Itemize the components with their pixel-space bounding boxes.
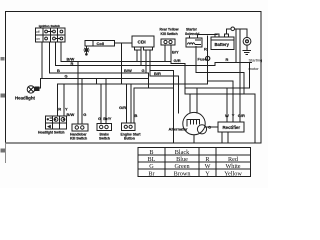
scan mark left 2 <box>1 94 6 98</box>
svg-text:G: G <box>98 116 101 121</box>
fuse circle <box>206 56 210 60</box>
svg-text:Starting: Starting <box>249 58 263 63</box>
wire kill drop 1 <box>164 45 166 62</box>
wire battery plus to connector <box>226 29 231 34</box>
svg-text:G: G <box>142 68 145 73</box>
svg-text:G/R: G/R <box>174 58 181 63</box>
wire v123 engine <box>126 84 128 123</box>
svg-text:B/W: B/W <box>67 112 75 117</box>
wire motor to ground <box>246 45 248 50</box>
wire CDI drop 4 <box>149 50 151 76</box>
starting motor <box>243 37 251 45</box>
svg-text:Button: Button <box>124 137 135 141</box>
wire v77 kill <box>77 62 79 125</box>
rectifier box <box>218 122 244 132</box>
wire y94 right <box>185 94 255 143</box>
svg-text:Red: Red <box>228 156 239 163</box>
wire rect in2 <box>232 81 234 122</box>
legend table <box>138 148 251 177</box>
wire solenoid link to battery <box>198 34 217 38</box>
wire ignition drop 4 <box>60 42 62 62</box>
wire B/R seg <box>150 75 179 77</box>
wire alt to rectifier <box>205 126 218 128</box>
wire v59 headlight switch <box>63 84 65 116</box>
alternator <box>183 112 207 134</box>
wire v178 to alternator <box>178 76 180 113</box>
svg-text:motor: motor <box>249 66 260 71</box>
handlebar kill switch box <box>72 124 88 131</box>
svg-text:Br/Y: Br/Y <box>103 116 112 121</box>
svg-text:B/W: B/W <box>124 68 132 73</box>
CDI connector tabs <box>135 47 142 50</box>
wire v236 <box>235 29 237 63</box>
svg-text:Green: Green <box>174 163 189 170</box>
outer frame <box>6 12 262 144</box>
svg-text:BL: BL <box>148 156 156 163</box>
spark plug <box>84 48 89 56</box>
svg-text:R: R <box>71 61 74 66</box>
headlight switch box <box>46 116 67 129</box>
svg-text:G/R: G/R <box>238 113 245 118</box>
svg-text:R: R <box>204 47 207 52</box>
wire fuse drop v208 <box>207 36 209 84</box>
wire v185 <box>184 64 186 95</box>
wire CDI left drop <box>120 43 122 84</box>
battery box <box>211 34 234 50</box>
wire loop right <box>173 71 175 144</box>
rear kill switch box <box>161 39 175 45</box>
wire R right seg <box>215 63 252 66</box>
wire bus R <box>56 65 216 67</box>
svg-text:G: G <box>65 74 68 79</box>
scan mark left 1 <box>1 57 5 61</box>
wire alt in1 <box>189 94 191 113</box>
svg-text:Fuse: Fuse <box>198 57 208 62</box>
wire v81 kill <box>81 79 83 125</box>
svg-text:Alternator: Alternator <box>169 127 189 132</box>
svg-text:Yellow: Yellow <box>224 170 242 177</box>
wire rect out2 <box>227 132 229 143</box>
wire coil to plug <box>86 46 88 48</box>
svg-text:Black: Black <box>175 149 190 156</box>
wire ignition drop 1 <box>41 42 43 79</box>
wire ignition drop 2 <box>49 42 51 73</box>
wire loop top y88 <box>134 88 174 123</box>
wire rect out1 <box>221 132 223 143</box>
wire v52 headlight switch <box>57 84 59 116</box>
svg-text:White: White <box>225 163 240 170</box>
ignition switch box <box>36 28 66 42</box>
wire CDI drop 2 <box>140 50 142 66</box>
wire connector to motor <box>235 29 248 38</box>
wire v105 brake <box>105 79 107 124</box>
engine start button box <box>122 123 136 130</box>
frame left lower extension <box>5 143 7 163</box>
wire bus y84 <box>58 83 208 85</box>
wire v128 engine <box>130 84 132 123</box>
svg-text:Switch: Switch <box>99 137 110 141</box>
svg-text:W: W <box>205 163 211 170</box>
wire bus G <box>41 78 149 80</box>
wire v249 <box>249 63 251 89</box>
wire y88 right <box>185 87 250 89</box>
wire headlight <box>40 79 41 89</box>
wire v148 <box>148 73 150 88</box>
svg-text:Kill Switch: Kill Switch <box>70 137 87 141</box>
wire v96 <box>96 79 98 85</box>
svg-text:B: B <box>57 68 60 73</box>
wire ignition drop 3 <box>55 42 57 66</box>
svg-text:Kill Switch: Kill Switch <box>161 32 178 36</box>
svg-text:Br: Br <box>148 170 154 177</box>
wire solenoid bottom drop <box>195 47 197 73</box>
svg-text:G/R: G/R <box>119 105 126 110</box>
svg-text:G: G <box>149 163 154 170</box>
wire alt bottom <box>193 135 195 143</box>
starter solenoid box <box>186 38 202 47</box>
svg-text:R: R <box>58 106 61 111</box>
wire v100 brake <box>100 84 102 124</box>
wire rect in1 <box>226 88 228 122</box>
headlight <box>27 86 40 93</box>
wire y70 seg <box>150 70 174 72</box>
svg-text:Headlight Switch: Headlight Switch <box>38 131 65 135</box>
wire v244 <box>243 73 245 95</box>
ground <box>243 51 251 55</box>
svg-text:CDI: CDI <box>138 40 147 46</box>
svg-text:Battery: Battery <box>215 42 230 47</box>
svg-text:R: R <box>226 57 229 62</box>
coil box <box>85 40 115 46</box>
svg-text:off: off <box>36 30 40 34</box>
svg-text:Blue: Blue <box>176 156 188 163</box>
svg-text:Y: Y <box>65 106 68 111</box>
wire y72 right <box>196 72 244 74</box>
wire solenoid t1 <box>189 36 191 38</box>
scan mark left 3 <box>1 149 6 153</box>
svg-text:Rectifier: Rectifier <box>223 125 241 130</box>
wire kill drop 2 <box>171 45 185 64</box>
wire y81 right <box>208 80 233 82</box>
svg-text:Headlight: Headlight <box>15 96 36 101</box>
wire v240 long <box>239 29 241 122</box>
svg-text:Brown: Brown <box>174 170 191 177</box>
svg-text:Ignition Switch: Ignition Switch <box>39 24 60 28</box>
wire bus B/W <box>61 61 171 63</box>
wire CDI drop 1 <box>136 50 138 62</box>
svg-text:B: B <box>149 149 153 156</box>
svg-text:B: B <box>135 113 138 118</box>
svg-text:B/R: B/R <box>154 71 161 76</box>
wire bus B <box>50 72 149 74</box>
svg-text:B/Y: B/Y <box>172 50 179 55</box>
wire alt in2 <box>196 88 198 113</box>
svg-text:Y: Y <box>205 170 210 177</box>
brake switch box <box>97 124 112 131</box>
svg-text:Coil: Coil <box>97 41 105 46</box>
svg-text:on: on <box>36 37 40 41</box>
svg-text:G: G <box>83 112 86 117</box>
wire coil right to CDI <box>115 42 132 44</box>
connector circle <box>231 27 235 31</box>
wire CDI drop 3 <box>145 50 147 73</box>
CDI box <box>132 36 154 47</box>
